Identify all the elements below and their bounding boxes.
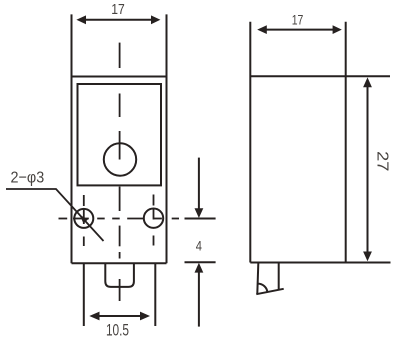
mounting hole right [144,209,163,228]
left hole vertical centerline dashes [83,195,85,206]
svg-text:17: 17 [292,11,304,27]
dim 4 lower limit line [185,261,216,263]
right hole vertical centerline dashes [153,195,155,206]
dim 4 lower arrow shaft [198,272,200,327]
dim 10.5 arrowheads [89,312,99,321]
dimension 17 front shaft [85,19,152,21]
dim 4 upper limit line [185,218,216,220]
svg-text:10.5: 10.5 [106,320,129,337]
side tab right edge [278,264,280,290]
dimension 27 shaft [367,86,369,253]
front body bottom edge [72,262,167,264]
sensing face inner rectangle [78,84,162,185]
front view left side / extension line [71,14,73,263]
dimension 27 arrowheads [363,77,372,87]
dim 10.5 shaft [99,315,142,317]
leader line 2-phi3 [6,189,104,241]
side tab bend arc [258,284,267,293]
svg-text:27: 27 [374,151,391,171]
front view right side / extension line [166,14,168,263]
svg-text:4: 4 [196,238,203,253]
dim 10.5 extension line left [83,264,85,326]
vertical centerline dashes [119,43,121,68]
dimension 17 side shaft [266,29,335,31]
side view top edge [250,75,390,77]
side view left edge / extension line [249,22,251,263]
sensing circle [104,143,136,175]
leader arrowhead [80,215,88,224]
side tab bottom edge [256,289,283,294]
side view bottom edge [250,262,390,264]
side view right edge / extension line [345,22,347,263]
dimension 17 front arrowheads [76,15,86,24]
front head divider line [72,76,167,78]
side tab left edge [257,264,258,294]
dimension 17 side arrowheads [257,25,267,34]
dim 10.5 extension line right [154,264,156,326]
svg-text:2−φ3: 2−φ3 [11,169,45,186]
dim 4 upper arrow shaft [198,158,200,209]
mounting hole left [74,209,93,228]
dim 4 arrowheads [195,208,204,218]
horizontal hole centerline dashes [59,218,68,220]
svg-text:17: 17 [111,1,125,18]
cable plug outline [105,263,134,287]
